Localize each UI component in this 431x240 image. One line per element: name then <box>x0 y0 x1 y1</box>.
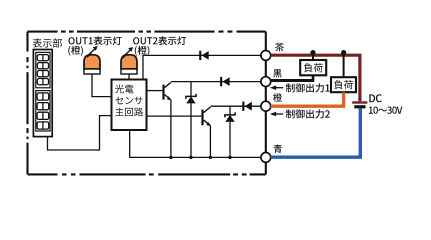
terminal (brown) <box>261 51 271 61</box>
label 制御出力2 <box>286 109 330 118</box>
OUT2 indicator LED (orange) <box>121 55 137 69</box>
sensor enclosure border (chain line) <box>28 31 266 33</box>
wire main circuit to Q2 base <box>147 115 202 117</box>
OUT1 LED light arrow <box>89 49 95 55</box>
transistor Q1 (NPN, output 1) <box>162 85 164 100</box>
load 1 bottom lead <box>312 75 315 80</box>
photoelectric sensor main circuit box <box>112 80 147 131</box>
wire Q1 collector to black terminal <box>171 81 261 83</box>
terminal (blue) <box>261 153 271 163</box>
load 1 top lead <box>312 54 314 60</box>
load 2 box 負荷 <box>331 77 356 92</box>
wire Q2 collector to orange terminal <box>210 105 260 107</box>
7-segment display module box <box>33 50 52 137</box>
battery negative plate <box>354 105 365 108</box>
label OUT1表示灯 <box>69 36 122 45</box>
label (橙) OUT2 <box>135 46 150 56</box>
OUT2 LED light arrow <box>124 50 130 56</box>
OUT1 indicator LED (orange) <box>84 55 100 69</box>
load 2 top lead <box>343 54 345 77</box>
label 10~30V <box>369 107 403 114</box>
label センサ <box>115 97 142 105</box>
wire OUT1 LED to main circuit <box>92 74 112 97</box>
brown +V wire <box>271 55 360 101</box>
lower 4-digit display <box>36 91 50 131</box>
label 橙 <box>273 93 282 102</box>
label 黒 <box>273 69 281 77</box>
label (橙) OUT1 <box>68 46 83 56</box>
terminal (black) <box>261 77 271 87</box>
wire main circuit to Q1 base <box>147 90 163 92</box>
label 制御出力1 <box>286 83 330 92</box>
wire main circuit to 0V rail <box>130 130 261 157</box>
label 主回路 <box>115 108 143 117</box>
enclosure right edge (terminal strip) <box>265 32 267 175</box>
label OUT2表示灯 <box>133 36 186 45</box>
load 1 box 負荷 <box>300 60 326 75</box>
junction dot load2 <box>341 50 346 55</box>
terminal (orange) <box>261 101 271 111</box>
label 表示部 <box>33 38 62 47</box>
zener diode ZD1 <box>190 82 192 96</box>
blue 0V wire <box>271 108 362 157</box>
diode D3 (output 2 line) <box>242 102 244 111</box>
wire OUT2 LED to main circuit <box>128 74 130 80</box>
wire +V rail to brown terminal <box>143 55 261 79</box>
wire display to main circuit <box>48 116 112 150</box>
transistor Q2 (NPN, output 2) <box>201 110 203 126</box>
battery positive plate <box>352 101 367 103</box>
label 光電 <box>115 85 133 94</box>
junction dot load1 <box>310 50 315 55</box>
diode D1 (reverse protection, +V rail) <box>199 51 201 60</box>
control output 2 arrow <box>275 113 284 115</box>
label 茶 <box>275 43 284 52</box>
label DC <box>369 94 382 102</box>
upper 4-digit display <box>36 52 50 87</box>
zener diode ZD2 <box>229 106 231 114</box>
orange output-2 wire <box>271 92 346 106</box>
wire Q1 emitter to 0V rail <box>170 100 172 157</box>
black output-1 wire <box>271 79 315 82</box>
control output 1 arrow <box>275 87 284 89</box>
wire Q2 emitter to 0V rail <box>209 126 211 158</box>
label 青 <box>274 144 282 153</box>
diode D2 (output 1 line) <box>220 77 222 86</box>
junction dots on 0V rail <box>169 156 172 159</box>
